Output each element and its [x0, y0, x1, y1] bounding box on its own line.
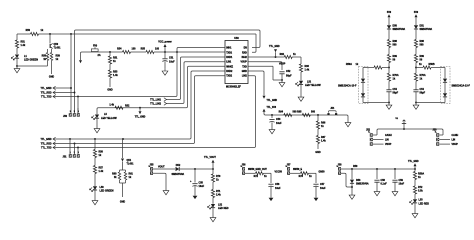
svg-text:GND: GND — [107, 88, 113, 91]
svg-text:1.4k: 1.4k — [321, 140, 326, 143]
svg-text:56pF: 56pF — [420, 91, 426, 94]
svg-text:1.4k: 1.4k — [113, 74, 118, 77]
svg-text:10uF: 10uF — [275, 187, 281, 190]
svg-text:56pF: 56pF — [393, 91, 399, 94]
svg-text:SMBJ24CA-13-F: SMBJ24CA-13-F — [452, 85, 471, 88]
svg-text:WAKE: WAKE — [226, 65, 233, 68]
svg-text:10uF: 10uF — [276, 122, 282, 125]
svg-text:0.1uF: 0.1uF — [381, 182, 388, 185]
svg-text:RXD1: RXD1 — [226, 57, 233, 59]
svg-text:VSUP: VSUP — [385, 144, 392, 146]
svg-text:R57: R57 — [99, 166, 104, 169]
svg-text:C56: C56 — [275, 183, 280, 186]
svg-text:R50A: R50A — [418, 172, 424, 175]
svg-text:LIN: LIN — [452, 140, 456, 142]
svg-text:RXD2: RXD2 — [226, 71, 233, 73]
svg-text:SMBJ5V0A: SMBJ5V0A — [172, 173, 185, 176]
svg-text:U50: U50 — [234, 37, 239, 40]
svg-text:R61: R61 — [129, 173, 134, 176]
svg-text:RXD: RXD — [242, 52, 247, 54]
svg-text:R50A: R50A — [346, 63, 352, 66]
svg-text:LIN2: LIN2 — [242, 76, 248, 78]
svg-text:GN50: GN50 — [319, 171, 326, 173]
svg-text:R67: R67 — [321, 136, 326, 139]
svg-text:SMBJ5V0A: SMBJ5V0A — [393, 28, 406, 31]
svg-text:10uF: 10uF — [199, 185, 205, 188]
svg-text:R51: R51 — [113, 57, 118, 60]
svg-text:R59: R59 — [56, 55, 61, 58]
svg-text:GND: GND — [120, 201, 126, 204]
svg-text:L51: L51 — [307, 80, 312, 83]
svg-text:C54: C54 — [420, 88, 425, 91]
svg-text:R50B: R50B — [429, 63, 435, 66]
svg-text:TTL_GND: TTL_GND — [269, 46, 280, 48]
svg-text:J51: J51 — [63, 155, 68, 158]
svg-text:1.4k: 1.4k — [99, 170, 104, 173]
svg-text:LED YELLOW: LED YELLOW — [101, 117, 117, 120]
svg-text:D50: D50 — [393, 24, 398, 27]
svg-text:L53: L53 — [419, 199, 424, 202]
svg-text:D52: D52 — [176, 164, 181, 167]
svg-text:10uF: 10uF — [399, 182, 405, 185]
svg-text:J58: J58 — [338, 163, 343, 166]
svg-text:F50: F50 — [93, 44, 98, 47]
svg-text:R68: R68 — [420, 40, 425, 43]
svg-text:1.4k: 1.4k — [21, 44, 26, 47]
svg-text:R70A: R70A — [393, 74, 399, 77]
svg-text:TTL_LIN2: TTL_LIN2 — [150, 103, 162, 106]
svg-text:C53: C53 — [276, 118, 281, 121]
svg-text:2A: 2A — [98, 54, 101, 57]
svg-text:D53: D53 — [356, 179, 361, 182]
svg-text:TTL_RXD: TTL_RXD — [41, 143, 52, 146]
svg-text:R68: R68 — [393, 40, 398, 43]
svg-text:LED YELLOW: LED YELLOW — [305, 84, 321, 87]
svg-text:560: 560 — [420, 44, 425, 47]
svg-text:SMBJ5V0A: SMBJ5V0A — [356, 182, 369, 185]
svg-text:5V0: 5V0 — [387, 11, 392, 14]
svg-text:TTL_GND: TTL_GND — [40, 138, 51, 141]
svg-text:VOUT: VOUT — [158, 166, 165, 169]
svg-text:R66: R66 — [321, 122, 326, 125]
svg-text:R58: R58 — [42, 55, 47, 58]
svg-text:SMBJ24CA-13-F: SMBJ24CA-13-F — [338, 85, 357, 88]
svg-text:TXD2: TXD2 — [226, 76, 233, 78]
svg-text:R65: R65 — [297, 111, 302, 114]
svg-text:EN: EN — [244, 48, 248, 50]
svg-text:10uF: 10uF — [169, 61, 175, 64]
svg-text:R69: R69 — [393, 55, 398, 58]
svg-text:R56: R56 — [99, 150, 104, 153]
svg-text:TL431: TL431 — [54, 47, 62, 50]
svg-text:TTL_GND: TTL_GND — [40, 87, 51, 90]
svg-text:C51: C51 — [169, 56, 174, 59]
svg-text:CANH: CANH — [385, 134, 392, 137]
svg-text:TL431: TL431 — [127, 162, 135, 165]
svg-text:10uF: 10uF — [320, 187, 326, 190]
svg-text:C59: C59 — [399, 179, 404, 182]
svg-text:GND: GND — [315, 151, 321, 154]
svg-text:56pF: 56pF — [286, 74, 292, 77]
svg-text:C52: C52 — [286, 70, 291, 73]
svg-text:SMBJ5V0A: SMBJ5V0A — [420, 28, 433, 31]
svg-text:C54: C54 — [393, 88, 398, 91]
svg-text:GND: GND — [49, 75, 55, 78]
svg-text:R64: R64 — [279, 111, 284, 114]
svg-text:D51: D51 — [420, 24, 425, 27]
svg-text:LED GREEN: LED GREEN — [100, 189, 114, 192]
svg-text:MC33662LEF: MC33662LEF — [226, 86, 241, 89]
svg-text:TXD1: TXD1 — [226, 52, 233, 54]
svg-text:SW50_GND_OUT: SW50_GND_OUT — [248, 169, 267, 171]
svg-text:LIN1: LIN1 — [226, 62, 232, 64]
svg-text:J57: J57 — [287, 163, 292, 166]
svg-text:5V0: 5V0 — [414, 11, 419, 14]
svg-text:INH2: INH2 — [242, 57, 248, 59]
svg-text:C55: C55 — [199, 182, 204, 185]
svg-text:560: 560 — [393, 44, 398, 47]
svg-text:L52: L52 — [218, 203, 223, 206]
svg-text:2.4k: 2.4k — [216, 193, 221, 196]
svg-text:1.4k: 1.4k — [109, 103, 114, 106]
svg-text:R60: R60 — [112, 173, 117, 176]
svg-text:3.3k: 3.3k — [418, 190, 423, 193]
svg-text:R72: R72 — [254, 175, 259, 178]
svg-text:VCC_power: VCC_power — [158, 41, 171, 44]
svg-text:R54: R54 — [117, 47, 122, 50]
svg-text:TTL_LIN1: TTL_LIN1 — [150, 99, 162, 102]
svg-text:R70A: R70A — [420, 74, 426, 77]
svg-text:TTL_RXD: TTL_RXD — [41, 92, 52, 95]
svg-text:LED RED: LED RED — [218, 207, 229, 210]
svg-text:R52: R52 — [125, 105, 130, 108]
svg-text:VSUP: VSUP — [452, 144, 459, 146]
svg-text:TTL_GND: TTL_GND — [408, 161, 419, 163]
svg-text:LED GREEN: LED GREEN — [24, 58, 38, 61]
svg-text:LIN: LIN — [385, 140, 389, 142]
svg-text:J55: J55 — [150, 163, 155, 166]
svg-text:TTL_3V3: TTL_3V3 — [267, 107, 277, 109]
svg-text:CANH: CANH — [452, 134, 459, 137]
svg-text:J56: J56 — [242, 163, 247, 166]
svg-text:TTL_TXD: TTL_TXD — [41, 96, 52, 99]
svg-text:TTL_GND: TTL_GND — [135, 116, 146, 118]
svg-text:R63: R63 — [305, 65, 310, 68]
svg-text:C58: C58 — [381, 179, 386, 182]
svg-text:VSUP: VSUP — [241, 62, 248, 64]
svg-text:R55: R55 — [141, 47, 146, 50]
svg-text:R50: R50 — [26, 29, 31, 32]
svg-text:R53: R53 — [113, 71, 118, 74]
svg-text:SW50_E: SW50_E — [293, 169, 303, 171]
svg-text:TTL_TXD: TTL_TXD — [41, 147, 52, 150]
svg-text:560: 560 — [311, 111, 316, 114]
svg-text:R71: R71 — [216, 190, 221, 193]
svg-text:TTL_VOUT: TTL_VOUT — [204, 157, 216, 159]
svg-text:L50: L50 — [100, 186, 105, 189]
svg-text:INH1: INH1 — [226, 48, 232, 50]
svg-text:R62: R62 — [280, 53, 285, 56]
svg-text:100: 100 — [132, 47, 137, 50]
svg-text:1.4k: 1.4k — [305, 69, 310, 72]
svg-text:TTL_GND: TTL_GND — [267, 100, 278, 102]
svg-text:LED RED: LED RED — [419, 202, 430, 205]
svg-text:C57: C57 — [320, 183, 325, 186]
svg-text:VSUP: VSUP — [279, 63, 286, 65]
svg-text:J50: J50 — [63, 115, 68, 118]
svg-text:R50: R50 — [353, 165, 358, 168]
svg-text:100: 100 — [155, 47, 160, 50]
svg-text:R70: R70 — [216, 175, 221, 178]
svg-text:VCC50: VCC50 — [275, 171, 283, 173]
svg-text:R73: R73 — [299, 175, 304, 178]
svg-text:R69: R69 — [420, 55, 425, 58]
svg-text:R72: R72 — [418, 186, 423, 189]
svg-text:GND: GND — [242, 71, 247, 73]
svg-text:TXD: TXD — [242, 66, 247, 68]
